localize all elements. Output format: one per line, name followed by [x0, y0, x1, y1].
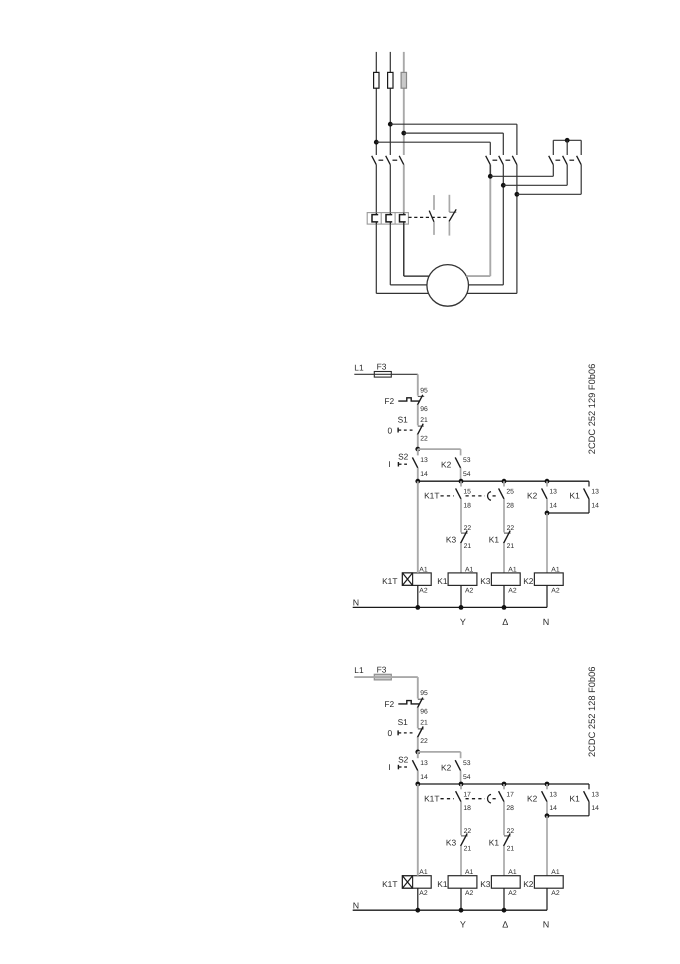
svg-text:L1: L1: [354, 362, 364, 372]
svg-text:K1: K1: [570, 491, 581, 501]
svg-text:K3: K3: [480, 576, 491, 586]
svg-text:13: 13: [420, 457, 428, 464]
svg-text:S2: S2: [398, 754, 409, 764]
svg-text:A1: A1: [551, 869, 560, 876]
svg-text:15: 15: [463, 489, 471, 496]
svg-text:K2: K2: [441, 762, 452, 772]
svg-text:Y: Y: [460, 920, 466, 930]
svg-text:N: N: [543, 920, 550, 930]
svg-text:K2: K2: [527, 793, 538, 803]
svg-text:S1: S1: [398, 717, 409, 727]
svg-text:14: 14: [420, 774, 428, 781]
svg-text:Δ: Δ: [502, 920, 508, 930]
svg-text:22: 22: [420, 435, 428, 442]
svg-text:53: 53: [463, 760, 471, 767]
svg-text:96: 96: [420, 709, 428, 716]
svg-text:2CDC 252 129 F0b06: 2CDC 252 129 F0b06: [587, 364, 597, 454]
svg-text:2CDC 252 128 F0b06: 2CDC 252 128 F0b06: [587, 667, 597, 757]
svg-text:K1T: K1T: [382, 576, 397, 586]
svg-text:13: 13: [591, 489, 599, 496]
svg-text:K2: K2: [523, 576, 534, 586]
svg-text:I: I: [388, 459, 390, 469]
svg-text:K1: K1: [570, 793, 581, 803]
svg-text:K1: K1: [437, 576, 448, 586]
svg-text:A1: A1: [508, 566, 517, 573]
svg-text:K1: K1: [489, 837, 500, 847]
svg-text:K3: K3: [480, 879, 491, 889]
svg-text:A1: A1: [551, 566, 560, 573]
svg-text:95: 95: [420, 387, 428, 394]
svg-text:54: 54: [463, 774, 471, 781]
svg-text:N: N: [543, 617, 550, 627]
svg-text:L1: L1: [354, 665, 364, 675]
svg-text:22: 22: [507, 525, 515, 532]
svg-text:N: N: [353, 598, 359, 608]
svg-text:S2: S2: [398, 452, 409, 462]
svg-text:K3: K3: [446, 837, 457, 847]
svg-text:95: 95: [420, 690, 428, 697]
svg-text:22: 22: [507, 828, 515, 835]
svg-text:A1: A1: [419, 566, 428, 573]
svg-text:K1T: K1T: [382, 879, 397, 889]
svg-text:K2: K2: [527, 491, 538, 501]
svg-text:F3: F3: [377, 665, 387, 675]
svg-text:21: 21: [507, 846, 515, 853]
svg-text:25: 25: [506, 489, 514, 496]
svg-text:A2: A2: [465, 587, 474, 594]
svg-text:A1: A1: [419, 869, 428, 876]
svg-text:22: 22: [464, 828, 472, 835]
svg-text:A2: A2: [508, 890, 517, 897]
svg-text:F2: F2: [384, 699, 394, 709]
svg-text:A1: A1: [465, 869, 474, 876]
svg-text:F3: F3: [377, 362, 387, 372]
svg-text:0: 0: [388, 425, 393, 435]
svg-text:A2: A2: [465, 890, 474, 897]
svg-text:13: 13: [420, 760, 428, 767]
svg-text:K3: K3: [446, 535, 457, 545]
svg-text:0: 0: [388, 728, 393, 738]
svg-text:A2: A2: [551, 890, 560, 897]
svg-text:14: 14: [420, 471, 428, 478]
svg-text:18: 18: [463, 502, 471, 509]
svg-text:13: 13: [591, 791, 599, 798]
svg-text:Y: Y: [460, 617, 466, 627]
svg-text:21: 21: [464, 846, 472, 853]
svg-text:K2: K2: [441, 460, 452, 470]
svg-text:K1: K1: [489, 535, 500, 545]
svg-text:17: 17: [463, 791, 471, 798]
svg-text:A2: A2: [551, 587, 560, 594]
svg-text:22: 22: [464, 525, 472, 532]
svg-text:96: 96: [420, 406, 428, 413]
svg-text:21: 21: [464, 543, 472, 550]
svg-text:13: 13: [549, 791, 557, 798]
svg-text:K1T: K1T: [424, 491, 439, 501]
svg-text:53: 53: [463, 457, 471, 464]
svg-text:F2: F2: [384, 396, 394, 406]
svg-text:A1: A1: [508, 869, 517, 876]
svg-text:18: 18: [463, 805, 471, 812]
svg-text:N: N: [353, 901, 359, 911]
svg-text:S1: S1: [398, 414, 409, 424]
svg-text:22: 22: [420, 738, 428, 745]
svg-text:17: 17: [506, 791, 514, 798]
svg-text:14: 14: [591, 502, 599, 509]
svg-text:14: 14: [549, 502, 557, 509]
svg-text:A2: A2: [419, 890, 428, 897]
svg-text:K2: K2: [523, 879, 534, 889]
svg-text:54: 54: [463, 471, 471, 478]
svg-text:K1T: K1T: [424, 793, 439, 803]
svg-text:A1: A1: [465, 566, 474, 573]
svg-text:21: 21: [507, 543, 515, 550]
svg-text:14: 14: [549, 805, 557, 812]
svg-text:21: 21: [420, 417, 428, 424]
svg-text:K1: K1: [437, 879, 448, 889]
svg-text:21: 21: [420, 720, 428, 727]
svg-text:A2: A2: [419, 587, 428, 594]
svg-text:28: 28: [506, 805, 514, 812]
svg-text:I: I: [388, 762, 390, 772]
svg-text:13: 13: [549, 489, 557, 496]
svg-text:A2: A2: [508, 587, 517, 594]
svg-text:28: 28: [506, 502, 514, 509]
svg-text:Δ: Δ: [502, 617, 508, 627]
svg-text:14: 14: [591, 805, 599, 812]
